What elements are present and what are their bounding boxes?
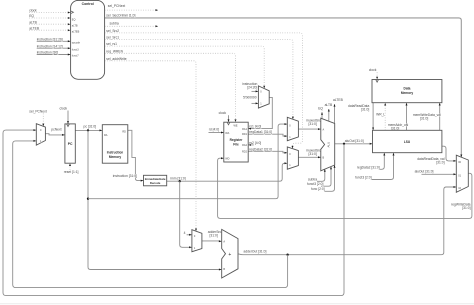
wire control sel_rs1 to rs-mux select [105,46,265,88]
svg-text:aLTEB: aLTEB [333,98,344,102]
alu ALU [321,118,335,171]
wire pc output to Instruction Memory [75,129,102,131]
mux adder-src-mux [192,230,202,252]
wire control sel_Src1 to srcA mux select [105,40,293,120]
svg-text:adderOut [31:0]: adderOut [31:0] [244,249,267,253]
svg-text:PC: PC [68,142,73,146]
wire regData2 from RF to srcB mux [248,151,287,153]
svg-text:4: 4 [184,231,186,235]
svg-text:instruction [14:12]: instruction [14:12] [37,44,63,48]
wire instruction field stub into rs1-mux [252,90,259,92]
wire func stub into ALU [324,165,335,191]
svg-text:rd [4:0]: rd [4:0] [209,128,219,132]
svg-text:sel_addrWrite: sel_addrWrite [106,57,126,61]
page bottom edge [0,303,474,305]
wire clock stub into RF [228,115,230,122]
svg-text:Register: Register [230,138,244,142]
adder PC adder [222,229,238,278]
svg-text:funct3 [2:0]: funct3 [2:0] [307,182,323,186]
svg-text:[31:0]: [31:0] [361,108,369,112]
svg-text:WE: WE [234,124,238,127]
wire Pc4 stub to WB mux input 01 [422,173,457,175]
svg-text:sel_rs1: sel_rs1 [106,42,117,46]
wire imm from decoder to srcB mux [166,163,287,181]
svg-text:aLTB: aLTB [29,20,37,24]
wire LSU memWriteData up to DataMemory [439,103,441,130]
svg-text:[31:0]: [31:0] [309,152,317,156]
svg-text:[31:0]: [31:0] [420,117,428,121]
svg-text:aluOut [31:0]: aluOut [31:0] [345,139,364,143]
svg-text:WA: WA [225,132,229,135]
wire reset stub into PC bottom [69,164,71,170]
svg-text:sel_PCNext: sel_PCNext [29,109,46,113]
clock marker PC [67,124,70,127]
wire pc branch right and up into srcA mux [88,124,287,199]
wire adderOut to WB mux input 10 [238,187,456,255]
wire LSU write enable up to DataMemory [384,103,386,130]
wire control sel_Src2 to srcB mux select [105,33,303,148]
svg-text:regData1 [31:0]: regData1 [31:0] [249,130,272,134]
wire muxedSrc2 to ALU B [298,156,320,158]
block Instruction Memory [102,125,128,164]
svg-text:ALU: ALU [327,142,331,148]
svg-text:EQ: EQ [72,18,76,21]
svg-text:Control: Control [82,2,94,6]
wire constant stub into rs1-mux [252,102,259,104]
block Data Memory [372,80,442,103]
svg-text:[31:0]: [31:0] [309,122,317,126]
svg-text:[31:0]: [31:0] [391,126,399,130]
svg-text:aLTEB: aLTEB [72,30,80,33]
wire control sel_PCNext output stub [105,9,158,11]
wire pc down to adder input B [88,130,221,269]
svg-text:RA2: RA2 [242,144,247,147]
mux srcB-mux [287,147,298,169]
svg-text:RD2: RD2 [242,150,248,153]
wire control subtra output stub [105,25,158,27]
svg-text:5'b00000: 5'b00000 [243,96,257,100]
svg-text:instruction [31:0]: instruction [31:0] [113,174,137,178]
svg-text:pc [31:0]: pc [31:0] [84,125,97,129]
svg-text:File: File [233,143,239,147]
svg-text:rs2 [4:0]: rs2 [4:0] [249,141,261,145]
svg-text:RA: RA [104,134,108,137]
wire muxedSrc1 to ALU A [298,128,320,130]
svg-text:[31:0]: [31:0] [436,160,444,164]
svg-text:aLTEB: aLTEB [29,26,40,30]
svg-text:subtra: subtra [110,21,119,25]
svg-text:funct3 [2:0]: funct3 [2:0] [355,175,371,179]
block LSU [373,130,442,152]
wire control aLTB input [29,23,70,25]
wire control EQ input [29,17,70,19]
svg-text:subtra: subtra [308,177,317,181]
wire regData2 stub into LSU write data [379,153,385,169]
wire control reg_WREN to RF write enable [105,53,236,122]
svg-text:sel_Src2: sel_Src2 [106,29,119,33]
wire instruction f7 input [37,54,71,56]
wire LSU data output to WB mux input 00 [442,146,456,161]
junction adderOut branch [286,254,288,256]
wire control sel_addrWrite to adder-src mux select [105,61,196,231]
wire adderOut feedback loop to pcnext mux input 1 [13,141,288,288]
wire rs1-mux output into RF read address [249,97,273,128]
svg-text:regData2 [31:0]: regData2 [31:0] [357,165,380,169]
svg-text:aLTB: aLTB [325,103,333,107]
svg-text:RD: RD [122,131,126,134]
svg-text:clock: clock [369,68,377,72]
wire sel_PCNext local stub into pcnext mux [42,114,44,127]
clock marker RF [227,122,230,125]
wire writeback from WB mux to RF.WD [218,158,472,218]
svg-text:clock: clock [219,111,227,115]
block ImmediateDecode [144,175,167,186]
svg-text:Memory: Memory [109,155,121,159]
svg-text:rs1 [4:0]: rs1 [4:0] [249,125,261,129]
junction imm branch [179,180,181,182]
wire rd stub into RF write address [209,132,224,134]
svg-text:reg_WREN: reg_WREN [106,49,123,53]
svg-text:Memory: Memory [401,91,413,95]
clock marker Control [71,11,74,14]
wire ALU flag aLTEB output [334,104,336,123]
svg-text:LSU: LSU [404,140,411,144]
wire ALU flag aLTB output [328,109,330,121]
svg-text:opcode: opcode [72,41,81,44]
mux writeback-mux [456,155,468,192]
junction pc branch to srcA mux [87,198,89,200]
svg-text:aluOut [31:0]: aluOut [31:0] [415,169,434,173]
svg-text:pcNext: pcNext [51,128,61,132]
wire instruction from IM.RD to decoder [128,130,143,180]
wire aluOut to LSU [335,143,373,145]
wire ALU flag EQ output [321,112,323,119]
svg-text:instruction [31:26]: instruction [31:26] [37,37,63,41]
wire clock stub into DataMemory [376,72,378,79]
wire funct3 stub into LSU [372,153,394,180]
svg-text:sel_SecOrImm [1:0]: sel_SecOrImm [1:0] [106,13,135,17]
svg-text:imm [31:0]: imm [31:0] [170,176,185,180]
junction pc branch [87,129,89,131]
mux rs1-mux [258,86,269,108]
svg-text:+: + [228,252,231,258]
wire control aLTEB input [29,29,70,31]
svg-text:funct3: funct3 [72,48,79,51]
svg-text:reset [1:1]: reset [1:1] [64,170,79,174]
wire rs2 stub into RF [249,144,254,146]
svg-text:Decode: Decode [150,181,161,185]
svg-text:[31:0]: [31:0] [462,206,470,210]
svg-text:EQ: EQ [29,14,34,18]
wire instruction funct input [37,47,71,49]
wire regData1 from RF to srcA mux [248,134,287,136]
wire control sel_DataToReg bus to WB mux select [105,18,462,157]
svg-text:RD1: RD1 [242,133,248,136]
wire control clock input [29,12,70,14]
svg-text:[31:0]: [31:0] [210,234,218,238]
wire instruction opcode input [37,40,71,42]
wire adder-src mux output to adder A [202,240,222,242]
svg-text:regData2 [31:0]: regData2 [31:0] [249,147,272,151]
wire LSU memAddr up to DataMemory [406,103,408,130]
clock marker DM [376,80,379,83]
svg-text:clock: clock [60,106,68,110]
svg-text:sel_PCNext: sel_PCNext [108,4,125,8]
svg-text:EQ: EQ [318,106,323,110]
wire DataMemory read data down to LSU [372,103,374,130]
junction aluOut branch [343,143,345,145]
wire subtra stub into ALU [317,169,325,181]
svg-text:sel_Src1: sel_Src1 [106,36,119,40]
svg-text:funct7: funct7 [72,55,79,58]
wire constant 4 stub into adder-src mux [187,234,192,236]
mux pcnext-mux [36,124,45,145]
svg-text:RA1: RA1 [242,128,247,131]
wire imm branch down to adder-src mux [180,181,192,247]
svg-text:func [2:0]: func [2:0] [311,187,325,191]
svg-text:[24:20]: [24:20] [247,86,257,90]
svg-text:aLTB: aLTB [72,24,78,27]
svg-text:instruction [30]: instruction [30] [37,51,59,55]
wire clock stub into PC [67,111,69,124]
svg-text:WR_L: WR_L [376,113,385,117]
wire aluOut feedback loop to pcnext mux input 0 [3,130,344,296]
register PC [65,124,75,163]
block Register File [224,122,248,162]
wire funct3 stub into ALU [321,167,331,187]
wire pcnext-mux output to PC [45,134,64,135]
svg-text:clock: clock [29,9,37,13]
mux srcA-mux [287,117,298,140]
svg-text:WD: WD [225,157,229,160]
block Control [71,0,105,79]
